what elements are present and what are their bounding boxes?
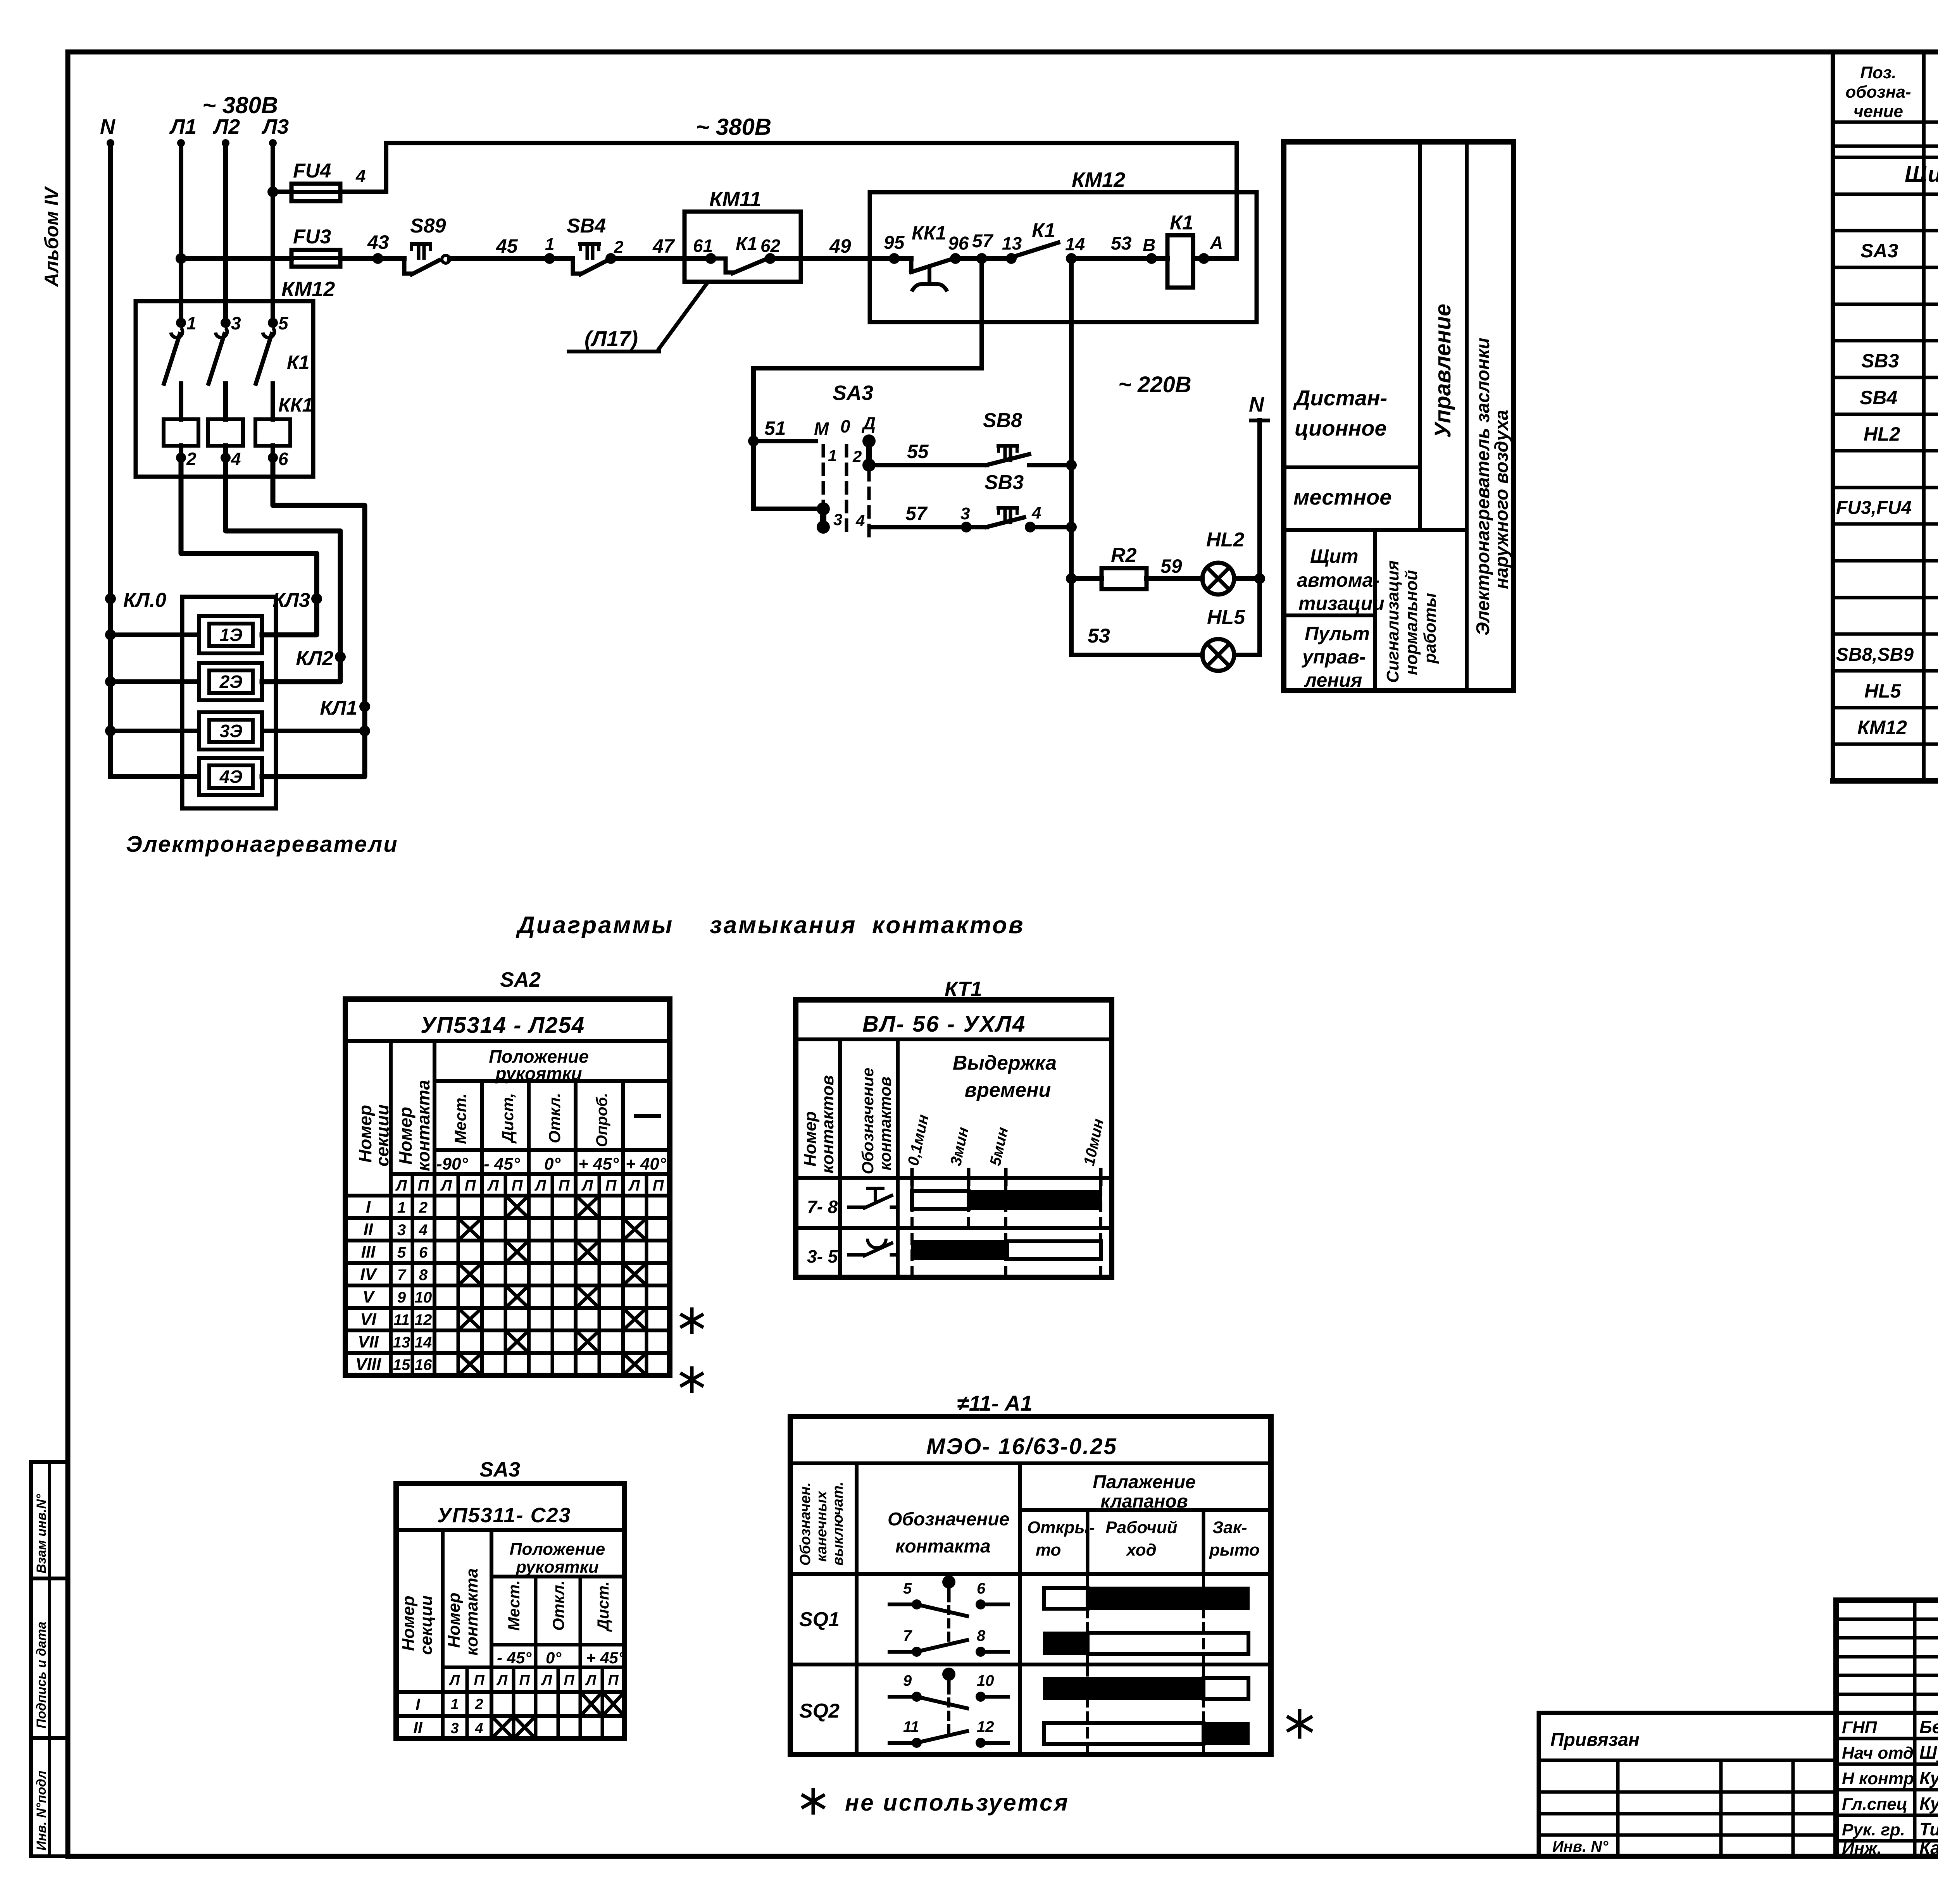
svg-text:КЛ.0: КЛ.0 [123, 589, 166, 612]
svg-text:ГНП: ГНП [1842, 1718, 1878, 1737]
annotation table (control/signalling legend) [1284, 142, 1514, 691]
svg-text:9: 9 [903, 1672, 912, 1689]
svg-text:2Э: 2Э [219, 672, 243, 692]
svg-text:контактов: контактов [872, 912, 1024, 939]
svg-text:Л: Л [541, 1672, 552, 1689]
svg-text:автома-: автома- [1297, 569, 1379, 591]
wire L1 vertical [179, 143, 183, 323]
svg-text:3Э: 3Э [220, 721, 243, 741]
svg-text:Рабочий: Рабочий [1105, 1518, 1177, 1537]
svg-text:П: П [559, 1177, 570, 1194]
svg-text:Титов: Титов [1919, 1819, 1938, 1839]
wire L3 to FU4 [273, 190, 291, 194]
svg-text:Дистан-: Дистан- [1293, 386, 1387, 410]
svg-text:УП5314 - Л254: УП5314 - Л254 [421, 1013, 585, 1038]
svg-text:HL2: HL2 [1206, 529, 1244, 551]
svg-text:III: III [361, 1242, 376, 1261]
svg-text:КМ12: КМ12 [1072, 168, 1125, 191]
svg-text:~ 380В: ~ 380В [696, 114, 771, 140]
svg-text:П: П [653, 1177, 664, 1194]
svg-text:секции: секции [417, 1595, 436, 1655]
svg-text:Л: Л [585, 1672, 597, 1689]
svg-text:13: 13 [393, 1334, 410, 1351]
svg-text:N: N [1249, 393, 1264, 416]
svg-text:МЭО- 16/63-0.25: МЭО- 16/63-0.25 [926, 1434, 1117, 1459]
wire HL2 to N [1234, 576, 1260, 581]
svg-text:SA3: SA3 [833, 381, 873, 405]
svg-text:рыто: рыто [1209, 1540, 1260, 1559]
svg-text:7- 8: 7- 8 [807, 1197, 838, 1217]
wire 53 to HL5 [1071, 653, 1202, 657]
svg-text:HL5: HL5 [1207, 606, 1245, 629]
svg-text:43: 43 [367, 231, 389, 253]
svg-text:4: 4 [1031, 503, 1041, 522]
svg-text:работы: работы [1421, 593, 1440, 664]
thermal overload contact KK1 (NC) [909, 258, 914, 272]
SA2 X marks [507, 1197, 527, 1216]
svg-text:наружного воздуха: наружного воздуха [1491, 410, 1512, 589]
svg-text:VIII: VIII [355, 1355, 381, 1374]
svg-text:49: 49 [829, 235, 851, 257]
svg-text:П: П [465, 1177, 476, 1194]
SQ1 travel bars [1086, 1577, 1089, 1663]
wire 380V top bus [386, 141, 1237, 145]
wire N to heater 1Э [105, 629, 116, 640]
svg-text:Откл.: Откл. [549, 1580, 567, 1631]
KM12 pole 1: terminals 1/2, contact K1, heater KK1 [176, 318, 186, 328]
svg-text:Сигнализация: Сигнализация [1383, 560, 1402, 683]
svg-text:Н контр: Н контр [1842, 1769, 1914, 1788]
svg-text:IV: IV [360, 1265, 378, 1284]
fuse FU3 [291, 250, 340, 267]
svg-text:I: I [416, 1695, 421, 1713]
svg-text:2: 2 [852, 447, 862, 465]
node junction HL2/N [1254, 573, 1265, 584]
svg-text:КЛ3: КЛ3 [272, 589, 310, 612]
wire N vertical (signal) [1251, 419, 1268, 422]
svg-text:выключат.: выключат. [830, 1482, 846, 1566]
parts list table [1831, 52, 1835, 781]
svg-text:времени: времени [965, 1079, 1051, 1101]
svg-text:К1: К1 [736, 234, 757, 254]
svg-text:Положение: Положение [510, 1540, 605, 1559]
svg-text:К1: К1 [1170, 212, 1193, 234]
svg-text:VII: VII [358, 1332, 379, 1351]
svg-text:R2: R2 [1111, 544, 1137, 567]
lamp HL5 [1202, 639, 1234, 671]
svg-text:6: 6 [419, 1244, 428, 1261]
svg-text:SA2: SA2 [500, 968, 541, 991]
svg-text:2: 2 [186, 449, 197, 469]
wire L1 to FU3 [181, 256, 291, 261]
svg-text:HL2: HL2 [1864, 423, 1900, 445]
svg-text:Взам инв.N°: Взам инв.N° [34, 1494, 49, 1573]
svg-text:чение: чение [1854, 102, 1903, 121]
svg-text:ционное: ционное [1295, 416, 1387, 440]
svg-text:SA3: SA3 [1860, 240, 1898, 262]
margin stamp box Инв. N подл [31, 1738, 68, 1856]
wire 49 [770, 256, 870, 261]
svg-text:то: то [1036, 1540, 1061, 1559]
svg-text:95: 95 [884, 233, 905, 253]
svg-text:Инв. N°: Инв. N° [1552, 1838, 1609, 1855]
svg-text:57: 57 [972, 231, 994, 252]
KT1 bar 7-8 [912, 1191, 969, 1209]
svg-text:Л: Л [628, 1177, 640, 1194]
svg-text:FU3: FU3 [293, 226, 331, 248]
node dots at feeder tops [107, 139, 114, 147]
svg-text:47: 47 [652, 235, 675, 257]
svg-text:П: П [474, 1672, 484, 1689]
svg-text:Л: Л [534, 1177, 547, 1194]
svg-text:контакта: контакта [413, 1080, 433, 1171]
svg-text:клапанов: клапанов [1100, 1491, 1188, 1512]
svg-text:- 45°: - 45° [497, 1649, 532, 1667]
pushbutton SB4 (NC) [550, 256, 573, 261]
wire N to heater 3Э [105, 725, 116, 736]
svg-text:51: 51 [764, 417, 786, 439]
svg-text:16: 16 [415, 1356, 432, 1373]
svg-text:3: 3 [397, 1222, 406, 1239]
SA3 dashed position lines [822, 446, 825, 504]
svg-text:4: 4 [855, 512, 865, 530]
svg-text:Номер: Номер [801, 1111, 820, 1167]
svg-text:Л3: Л3 [261, 115, 289, 138]
svg-text:+ 40°: + 40° [626, 1154, 666, 1173]
wire 51 stub [753, 439, 816, 443]
svg-text:I: I [366, 1198, 371, 1216]
wire 14 down to signal rows [1069, 258, 1074, 465]
svg-text:2: 2 [474, 1696, 483, 1713]
wire 55 [869, 463, 986, 467]
svg-text:ход: ход [1126, 1540, 1156, 1559]
svg-text:Номер: Номер [395, 1107, 416, 1165]
node A [1193, 256, 1237, 261]
svg-text:II: II [413, 1718, 423, 1737]
node 57 [955, 256, 1011, 261]
svg-text:2: 2 [614, 238, 624, 257]
svg-text:КМ11: КМ11 [709, 188, 761, 211]
node 51 [748, 436, 759, 446]
node 95 [870, 256, 911, 261]
svg-text:Кузнецов: Кузнецов [1919, 1768, 1938, 1788]
KT1 bar 3-5 [912, 1241, 1007, 1259]
svg-text:контактов: контактов [876, 1077, 894, 1170]
svg-text:V: V [362, 1287, 375, 1306]
margin stamp box Взам инв.N [31, 1462, 68, 1578]
node 13 [1006, 253, 1017, 264]
svg-text:рукоятки: рукоятки [495, 1063, 582, 1084]
svg-text:SB3: SB3 [985, 471, 1024, 494]
svg-text:45: 45 [496, 235, 518, 257]
svg-text:Диаграммы: Диаграммы [516, 912, 674, 939]
svg-text:N: N [100, 115, 116, 138]
svg-text:КЛ1: КЛ1 [320, 697, 357, 719]
svg-text:контактов: контактов [818, 1075, 837, 1173]
svg-text:1: 1 [828, 446, 837, 465]
svg-text:0°: 0° [544, 1154, 560, 1173]
svg-text:П: П [608, 1672, 619, 1689]
svg-text:4: 4 [231, 449, 241, 469]
node 3 [961, 522, 972, 532]
svg-text:57: 57 [905, 503, 928, 524]
svg-text:S89: S89 [410, 215, 446, 237]
svg-text:VI: VI [360, 1310, 376, 1329]
svg-text:Инв. N°подл: Инв. N°подл [34, 1771, 49, 1851]
clamp КЛ.0 on N [105, 593, 116, 604]
svg-text:12: 12 [415, 1311, 432, 1328]
svg-text:Л: Л [581, 1177, 593, 1194]
svg-text:Рук. гр.: Рук. гр. [1842, 1820, 1905, 1839]
attachment block Привязан [1539, 1713, 1836, 1856]
svg-text:Электронагреватели: Электронагреватели [126, 832, 398, 857]
svg-text:не используется: не используется [845, 1790, 1069, 1816]
node 14 [1066, 253, 1077, 264]
SQ2 travel bars [1086, 1666, 1089, 1752]
wire bus drop to coil terminal A [1235, 143, 1239, 257]
svg-text:8: 8 [419, 1266, 428, 1284]
wire HL5 to N [1234, 653, 1260, 657]
svg-text:Д: Д [861, 413, 876, 433]
wire node4 to junction [1030, 525, 1071, 529]
svg-text:- 45°: - 45° [484, 1154, 520, 1173]
svg-text:96: 96 [948, 233, 969, 254]
svg-text:КЛ2: КЛ2 [296, 647, 333, 670]
svg-text:Альбом IV: Альбом IV [41, 186, 62, 288]
wire FU4 to bus riser, label 4 [340, 190, 386, 194]
svg-text:Щит: Щит [1310, 545, 1358, 567]
heater element 4Э [199, 758, 262, 795]
heater element 3Э [199, 712, 262, 750]
svg-text:15: 15 [393, 1356, 410, 1373]
wire N vertical [108, 143, 113, 777]
svg-text:7: 7 [903, 1627, 912, 1644]
svg-text:Дист,: Дист, [498, 1093, 517, 1144]
МЭО note star [1298, 1711, 1302, 1737]
svg-text:11: 11 [393, 1311, 410, 1328]
wire pole2 to clamp КЛ2 and heater 2Э [226, 458, 340, 682]
svg-text:4: 4 [355, 166, 366, 186]
svg-text:замыкания: замыкания [710, 912, 857, 939]
svg-text:П: П [512, 1177, 523, 1194]
lamp HL2 (green) [1202, 563, 1234, 594]
contactor KM12 power block [136, 301, 313, 477]
SA3 contact 1-2 bridge (closed at Д) [862, 434, 876, 448]
svg-text:Гл.спец: Гл.спец [1842, 1795, 1907, 1814]
svg-text:секции: секции [372, 1104, 392, 1167]
sheet frame border [66, 52, 71, 1856]
pushbutton S89 (NC, pull type) [402, 258, 407, 274]
svg-text:УП5311- С23: УП5311- С23 [437, 1504, 571, 1527]
svg-text:12: 12 [977, 1718, 994, 1735]
svg-text:SQ1: SQ1 [799, 1608, 840, 1631]
title block [1836, 1600, 1938, 1856]
node junction L3/FU4 [267, 186, 278, 197]
note * не используется [812, 1790, 815, 1813]
svg-text:Обозначение: Обозначение [859, 1068, 877, 1174]
svg-text:Дист.: Дист. [594, 1581, 612, 1632]
svg-text:53: 53 [1111, 233, 1132, 254]
node B [1146, 253, 1157, 264]
svg-text:1: 1 [397, 1199, 406, 1216]
svg-text:SB8: SB8 [983, 409, 1022, 432]
svg-text:Выдержка: Выдержка [953, 1052, 1057, 1074]
coil K1 [1167, 235, 1193, 288]
svg-text:~ 220В: ~ 220В [1118, 372, 1191, 397]
node junction 57/signal [1066, 522, 1077, 532]
svg-text:II: II [364, 1220, 373, 1239]
svg-text:+ 45°: + 45° [578, 1154, 619, 1173]
svg-text:3: 3 [231, 313, 241, 333]
svg-text:П: П [564, 1672, 574, 1689]
svg-text:14: 14 [1065, 234, 1085, 254]
svg-text:FU4: FU4 [293, 160, 331, 182]
svg-text:Номер: Номер [445, 1592, 464, 1648]
svg-text:контакта: контакта [895, 1536, 991, 1557]
heater bank enclosure [182, 597, 276, 808]
node 1 (SB4 left) [544, 253, 555, 264]
svg-text:К1: К1 [1032, 219, 1055, 242]
node junction L1/FU3 [176, 253, 186, 264]
svg-text:SB4: SB4 [567, 215, 606, 237]
KT1 dashed ticks [910, 1186, 914, 1275]
wire heater 3Э right [262, 729, 365, 733]
svg-text:ВЛ- 56 - УХЛ4: ВЛ- 56 - УХЛ4 [862, 1011, 1026, 1037]
svg-text:6: 6 [278, 449, 288, 469]
wire pole3 to clamp КЛ1, heaters 3Э/4Э [262, 458, 365, 777]
SA3 contact 3-4 bridge (closed at М) [817, 502, 830, 515]
svg-text:Поз.: Поз. [1860, 63, 1896, 82]
svg-text:4Э: 4Э [219, 767, 243, 787]
svg-text:4: 4 [474, 1720, 483, 1737]
pushbutton SB8 (NO) [986, 454, 1029, 465]
heater element 1Э [199, 616, 262, 653]
svg-text:П: П [519, 1672, 530, 1689]
svg-text:Палажение: Палажение [1093, 1472, 1195, 1492]
svg-text:Опроб.: Опроб. [593, 1093, 610, 1147]
svg-text:Л: Л [448, 1672, 460, 1689]
svg-text:Электронагреватель заслонки: Электронагреватель заслонки [1473, 338, 1493, 636]
wire 47 [611, 256, 685, 261]
KM12 pole 3: terminals 5/6, contact K1, heater KK1 [268, 318, 278, 328]
junction vertical (signal column) [1069, 465, 1074, 655]
svg-text:3: 3 [833, 510, 842, 529]
svg-text:1: 1 [186, 313, 197, 333]
svg-text:61: 61 [693, 236, 713, 256]
clamp КЛ3 [311, 593, 322, 604]
svg-text:5: 5 [397, 1244, 406, 1261]
svg-text:тизации: тизации [1298, 593, 1385, 614]
svg-text:10: 10 [977, 1672, 994, 1689]
svg-text:Пульт: Пульт [1305, 623, 1370, 644]
pushbutton SB3 (NO) [966, 525, 986, 529]
svg-text:9: 9 [397, 1289, 406, 1306]
svg-text:КМ12: КМ12 [281, 277, 335, 301]
wire FU3 to node 43 [340, 256, 404, 261]
svg-text:55: 55 [907, 441, 929, 462]
wire 53 (to coil) [1071, 256, 1167, 261]
heater element 2Э [199, 663, 262, 700]
svg-text:Инж.: Инж. [1842, 1839, 1882, 1858]
svg-text:Л: Л [440, 1177, 452, 1194]
svg-text:Зак-: Зак- [1212, 1518, 1247, 1537]
svg-text:59: 59 [1160, 555, 1182, 577]
wire 57 row [873, 525, 966, 529]
svg-text:П: П [418, 1177, 429, 1194]
contact K1 (NO in KM11) [711, 257, 726, 261]
node junction 3Э/pole3 [359, 725, 370, 736]
svg-text:14: 14 [415, 1334, 432, 1351]
svg-text:Мест.: Мест. [505, 1580, 523, 1631]
svg-text:Управление: Управление [1430, 304, 1455, 438]
svg-text:SB4: SB4 [1860, 387, 1897, 408]
SA2 note stars [690, 1309, 694, 1332]
svg-text:управ-: управ- [1301, 646, 1366, 668]
node 61 [685, 256, 711, 261]
svg-text:П: П [605, 1177, 617, 1194]
node junction 55/14 [1066, 460, 1077, 470]
svg-text:Мест.: Мест. [451, 1093, 469, 1144]
svg-text:FU3,FU4: FU3,FU4 [1836, 498, 1912, 518]
wire SB8 to junction [1029, 463, 1071, 467]
svg-text:SB3: SB3 [1861, 350, 1899, 372]
wire L2 vertical [223, 143, 228, 323]
svg-text:4: 4 [419, 1222, 428, 1239]
svg-text:1Э: 1Э [220, 625, 243, 645]
svg-text:Щит автоматизации АД11: Щит автоматизации АД11 [1905, 162, 1938, 187]
svg-text:1: 1 [450, 1696, 459, 1713]
node 43 [372, 253, 383, 264]
wire node57 down / left to SA3 [979, 258, 984, 368]
svg-text:КК1: КК1 [912, 222, 946, 244]
svg-text:Л: Л [395, 1177, 407, 1194]
svg-text:нормальной: нормальной [1402, 570, 1421, 675]
svg-text:62: 62 [760, 236, 781, 256]
svg-text:обозна-: обозна- [1845, 83, 1911, 102]
svg-text:5: 5 [903, 1580, 912, 1597]
svg-text:Обозначение: Обозначение [888, 1509, 1009, 1530]
svg-text:3- 5: 3- 5 [807, 1246, 838, 1266]
svg-text:М: М [814, 419, 829, 439]
svg-text:К1: К1 [287, 352, 310, 373]
wire N to heater 4Э [110, 774, 199, 779]
svg-text:53: 53 [1088, 625, 1110, 647]
svg-text:3: 3 [450, 1720, 459, 1737]
svg-text:рукоятки: рукоятки [516, 1558, 599, 1577]
wire 59 [1147, 576, 1202, 581]
resistor R2 [1102, 568, 1147, 589]
node junction R2 row [1066, 573, 1077, 584]
svg-text:Л1: Л1 [169, 115, 197, 138]
svg-text:8: 8 [977, 1627, 986, 1644]
wire pole1 to clamp КЛ3 and heater 1Э [181, 458, 317, 635]
contactor block KM12 (coil circuit box) [870, 192, 1257, 322]
svg-text:SB8,SB9: SB8,SB9 [1836, 644, 1914, 665]
svg-text:11: 11 [903, 1718, 919, 1735]
svg-text:≠11- А1: ≠11- А1 [957, 1391, 1033, 1415]
svg-text:3: 3 [960, 504, 970, 523]
svg-text:Нач отд: Нач отд [1842, 1744, 1914, 1763]
svg-text:Откл.: Откл. [545, 1093, 564, 1143]
svg-text:1: 1 [545, 235, 554, 254]
node 2 (SB4 right) [605, 253, 616, 264]
svg-text:Обозначен.: Обозначен. [797, 1482, 814, 1566]
wire L3 vertical [271, 143, 275, 323]
svg-text:местное: местное [1293, 485, 1391, 509]
svg-text:7: 7 [397, 1266, 407, 1284]
wire to R2 [1071, 576, 1102, 581]
svg-text:Л2: Л2 [212, 115, 240, 138]
